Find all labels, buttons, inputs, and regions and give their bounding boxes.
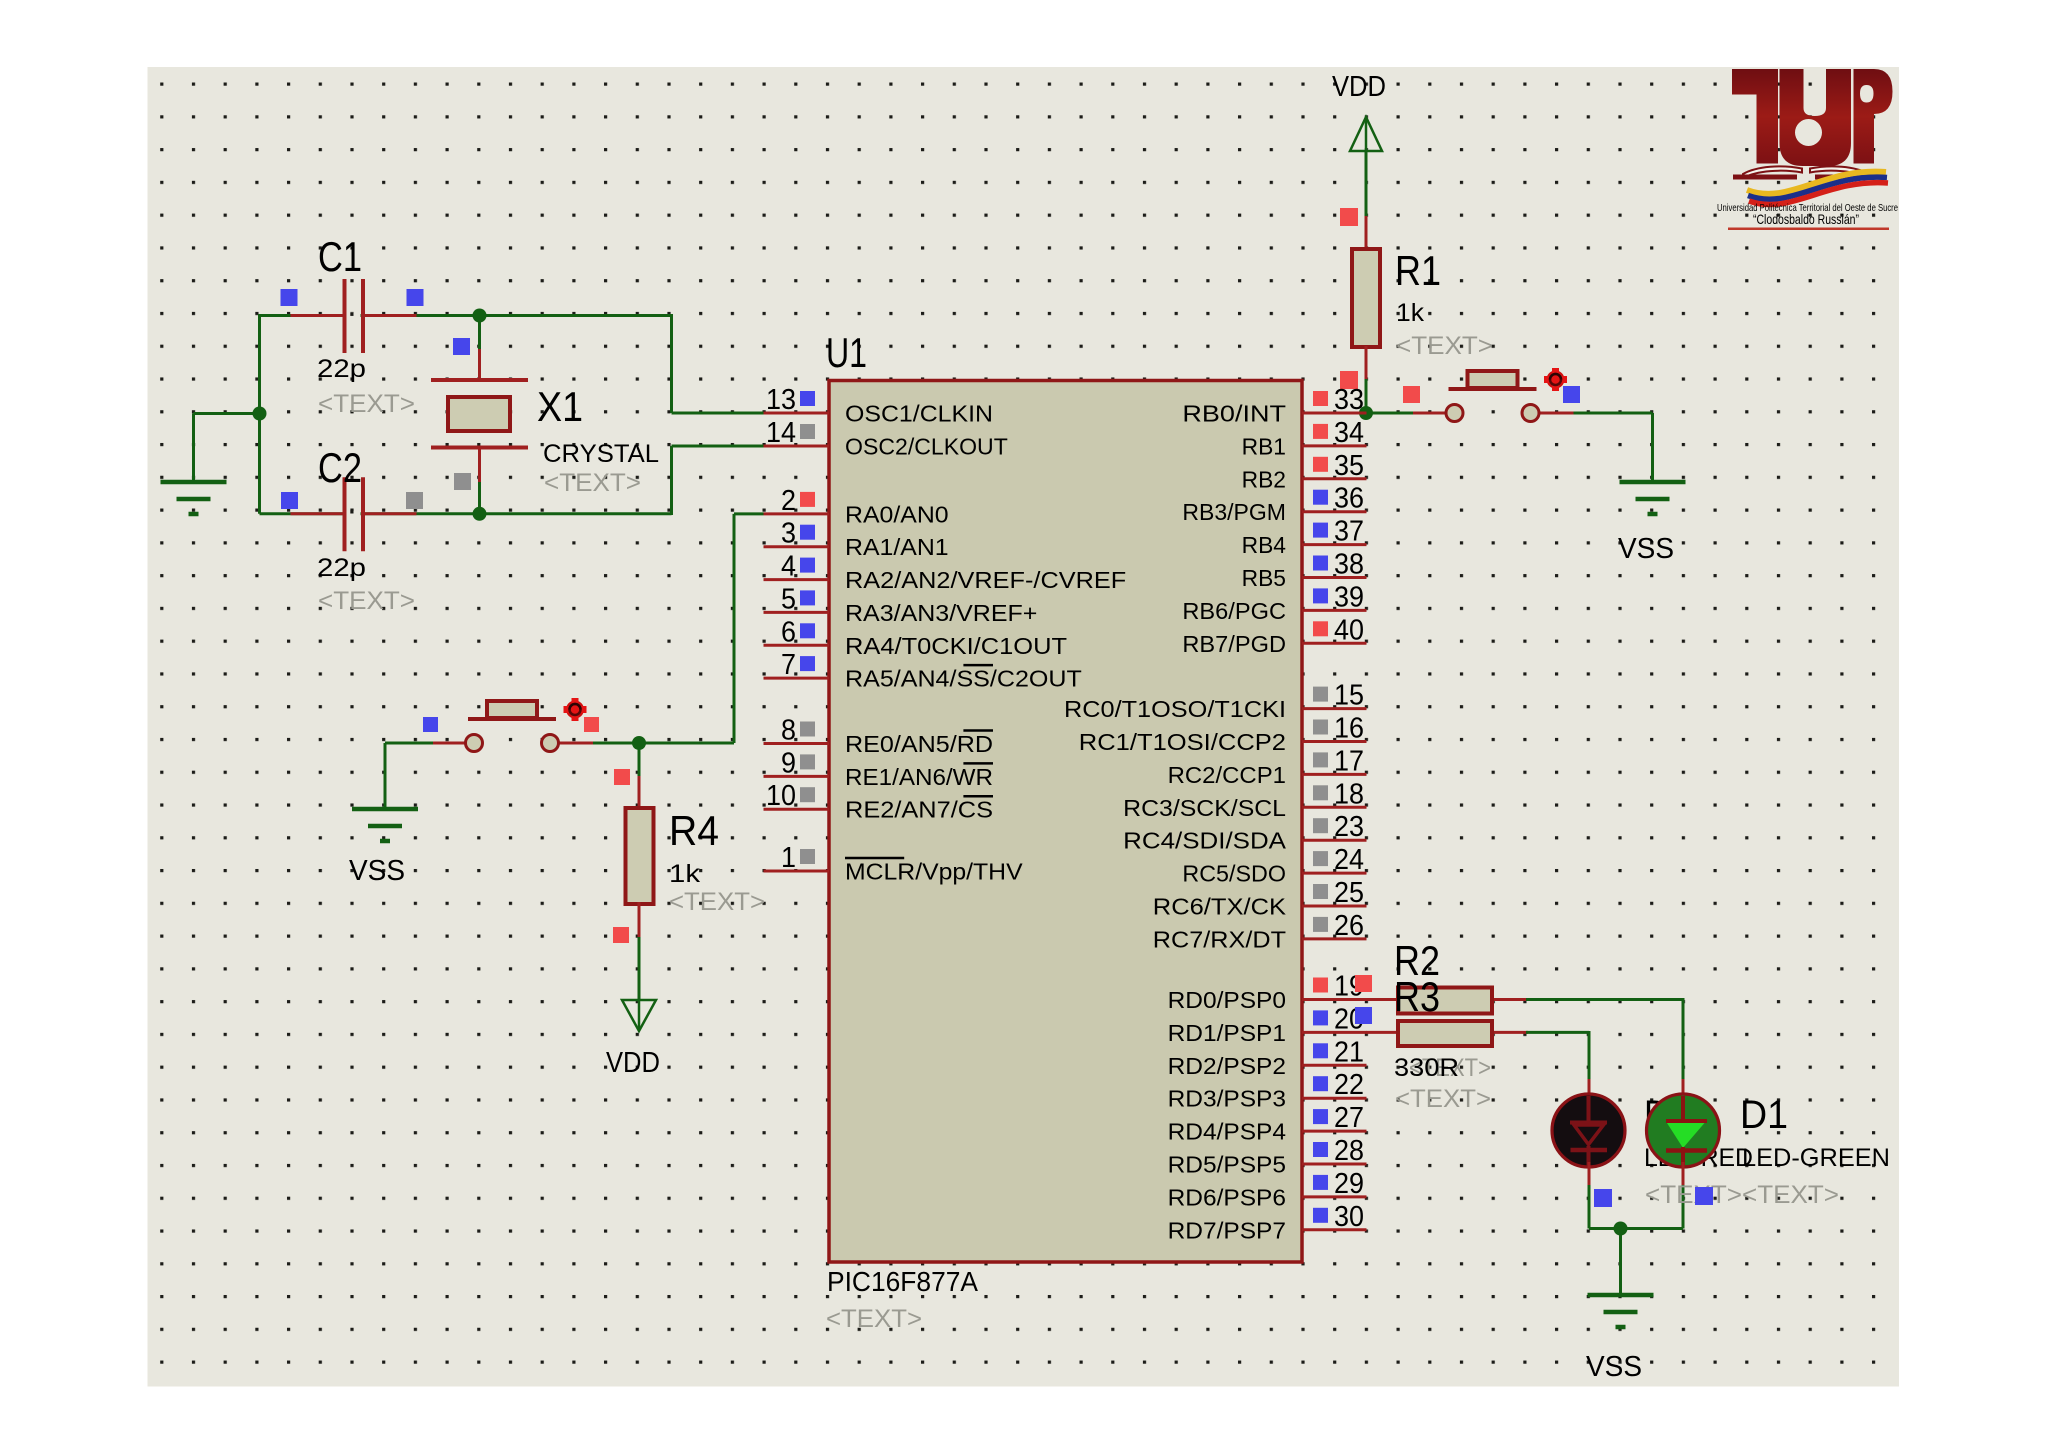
svg-text:RA0/AN0: RA0/AN0 — [845, 501, 949, 527]
junction node E (RB0 / R1 / button) — [1359, 406, 1373, 420]
svg-text:22: 22 — [1334, 1069, 1364, 1101]
U1 pin 28 (RD5/PSP5) — [1168, 1135, 1367, 1178]
logic state squares near left button — [423, 717, 438, 732]
svg-text:“Clodosbaldo Russián”: “Clodosbaldo Russián” — [1753, 211, 1859, 227]
U1 pin 15 (RC0/T1OSO/T1CKI) — [1064, 680, 1367, 723]
svg-text:R4: R4 — [669, 807, 719, 854]
svg-text:25: 25 — [1334, 877, 1364, 909]
junction node A (C1 / X1 / OSC1) — [473, 309, 487, 323]
wire ground rail between LEDs — [1589, 1227, 1683, 1230]
svg-text:38: 38 — [1334, 549, 1364, 581]
U1 pin 35 (RB2) — [1242, 450, 1367, 493]
wire R1 bottom lead (green) — [1365, 379, 1368, 413]
wire ground branch vertical at C1/C2 — [192, 414, 195, 482]
svg-text:21: 21 — [1334, 1036, 1364, 1068]
wire net between C1 and C2 left vertical — [258, 314, 261, 514]
svg-text:RD4/PSP4: RD4/PSP4 — [1168, 1119, 1287, 1145]
junction node C (C2 / X1 / OSC2) — [473, 507, 487, 521]
U1 pin 3 (RA1/AN1) — [764, 518, 949, 561]
svg-text:VSS: VSS — [1618, 533, 1674, 565]
svg-text:D1: D1 — [1740, 1093, 1788, 1137]
wire net XTAL1 vertical to pin 13 — [670, 314, 673, 413]
svg-text:RA2/AN2/VREF-/CVREF: RA2/AN2/VREF-/CVREF — [845, 567, 1126, 593]
svg-text:RC2/CCP1: RC2/CCP1 — [1168, 762, 1286, 788]
wire net from left button to ground corner — [385, 742, 447, 745]
U1 pin 22 (RD3/PSP3) — [1168, 1069, 1367, 1112]
wire net RB0 to right button — [1366, 412, 1442, 415]
svg-text:8: 8 — [781, 715, 796, 747]
actuator marker of SW2 (left) — [564, 698, 587, 721]
wire net into RA0/AN0 — [734, 512, 764, 515]
U1 pin 8 (RE0/AN5/RD) — [764, 715, 994, 758]
U1 pin 21 (RD2/PSP2) — [1168, 1036, 1367, 1079]
wire red LED cathode to ground rail — [1588, 1185, 1591, 1229]
U1 pin 26 (RC7/RX/DT) — [1153, 910, 1367, 953]
wire net down to green LED — [1682, 998, 1685, 1080]
svg-text:18: 18 — [1334, 778, 1364, 810]
svg-text:35: 35 — [1334, 450, 1364, 482]
logic state squares near right button — [1403, 386, 1420, 403]
wire net junction D to RA0 corner — [639, 742, 734, 745]
svg-text:RA5/AN4/SS/C2OUT: RA5/AN4/SS/C2OUT — [845, 666, 1082, 692]
svg-text:OSC2/CLKOUT: OSC2/CLKOUT — [845, 434, 1008, 460]
svg-text:CRYSTAL: CRYSTAL — [543, 440, 659, 468]
svg-text:OSC1/CLKIN: OSC1/CLKIN — [845, 401, 993, 427]
svg-text:R3: R3 — [1394, 973, 1440, 1020]
wire net XTAL1 top horizontal — [260, 314, 672, 317]
svg-text:37: 37 — [1334, 516, 1364, 548]
university logo UP monogram — [1732, 69, 1893, 166]
wire ground stem LEDs — [1619, 1229, 1622, 1296]
resistor R2 leads — [1366, 998, 1398, 1001]
U1 pin 27 (RD4/PSP4) — [1168, 1102, 1367, 1145]
svg-text:RA1/AN1: RA1/AN1 — [845, 534, 949, 560]
svg-text:9: 9 — [781, 747, 796, 779]
junction node B (C1-C2 ground tap) — [253, 407, 267, 421]
svg-text:30: 30 — [1334, 1201, 1364, 1233]
push button SW2 (left) — [433, 701, 593, 752]
wire green LED cathode to ground rail — [1682, 1185, 1685, 1229]
svg-text:RB5: RB5 — [1242, 565, 1286, 591]
wire net left button to junction D — [558, 742, 639, 745]
svg-text:VSS: VSS — [349, 855, 405, 887]
U1 pin 38 (RB5) — [1242, 549, 1367, 592]
svg-text:26: 26 — [1334, 910, 1364, 942]
wire ground stem left button — [384, 743, 387, 808]
U1 pin 40 (RB7/PGD) — [1182, 614, 1366, 657]
svg-text:3: 3 — [781, 518, 796, 550]
wire crystal X1 top stub (green) — [478, 316, 481, 351]
actuator marker of SW1 (right) — [1544, 368, 1567, 391]
svg-text:RD5/PSP5: RD5/PSP5 — [1168, 1152, 1286, 1178]
svg-text:6: 6 — [781, 616, 796, 648]
svg-text:39: 39 — [1334, 581, 1364, 613]
U1 pin 24 (RC5/SDO) — [1182, 844, 1366, 887]
svg-text:RD0/PSP0: RD0/PSP0 — [1168, 987, 1286, 1013]
junction node F (LED cathodes) — [1614, 1222, 1628, 1236]
svg-text:RB6/PGC: RB6/PGC — [1182, 598, 1286, 624]
svg-text:RD7/PSP7: RD7/PSP7 — [1168, 1217, 1286, 1243]
svg-text:RC1/T1OSI/CCP2: RC1/T1OSI/CCP2 — [1079, 729, 1286, 755]
svg-text:C1: C1 — [318, 233, 362, 280]
svg-text:24: 24 — [1334, 844, 1364, 876]
svg-text:VDD: VDD — [606, 1047, 660, 1079]
capacitor C2 — [291, 477, 417, 551]
U1 pin 17 (RC2/CCP1) — [1168, 745, 1367, 788]
wire crystal X1 bottom stub (green) — [478, 481, 481, 514]
push button SW1 (right) — [1414, 371, 1574, 422]
wire net R2 to green LED — [1526, 998, 1683, 1001]
svg-text:<TEXT>: <TEXT> — [318, 390, 415, 418]
U1 pin 20 (RD1/PSP1) — [1168, 1003, 1367, 1046]
U1 pin 10 (RE2/AN7/CS) — [764, 780, 994, 823]
svg-text:<TEXT>: <TEXT> — [1395, 1085, 1491, 1113]
wire R4 top lead (green) — [638, 743, 641, 778]
wire net right button to ground corner — [1538, 412, 1653, 415]
U1 pin 1 (MCLR/Vpp/THV) — [764, 842, 1024, 885]
U1 pin 2 (RA0/AN0) — [764, 485, 949, 528]
logic state square crystal bottom — [454, 473, 471, 490]
svg-text:LED-GREEN: LED-GREEN — [1742, 1144, 1890, 1172]
U1 pin 30 (RD7/PSP7) — [1168, 1201, 1367, 1244]
svg-text:34: 34 — [1334, 417, 1364, 449]
svg-text:28: 28 — [1334, 1135, 1364, 1167]
resistor R2 body — [1398, 988, 1492, 1014]
U1 pin 9 (RE1/AN6/WR) — [764, 747, 994, 790]
logo caption text — [1717, 203, 1898, 230]
resistor R3 body — [1398, 1021, 1492, 1046]
ground symbol G4 LEDs — [1588, 1229, 1654, 1328]
wire ground branch horizontal at C1/C2 — [194, 412, 262, 415]
ground symbol G2 left button — [352, 743, 418, 841]
svg-text:29: 29 — [1334, 1168, 1364, 1200]
svg-text:23: 23 — [1334, 811, 1364, 843]
svg-text:1: 1 — [781, 842, 796, 874]
wire ground stem right button — [1651, 413, 1654, 481]
wire net XTAL2 vertical from pin 14 — [670, 446, 673, 515]
svg-text:X1: X1 — [537, 383, 583, 430]
svg-text:RC5/SDO: RC5/SDO — [1182, 861, 1286, 887]
U1 pin 25 (RC6/TX/CK) — [1153, 877, 1367, 920]
wire net XTAL2 bottom horizontal — [260, 512, 672, 515]
resistor R3 leads — [1366, 1031, 1398, 1034]
U1 pin 7 (RA5/AN4/SS/C2OUT) — [764, 649, 1082, 692]
svg-text:<TEXT><TEXT>: <TEXT><TEXT> — [1645, 1181, 1839, 1209]
wire R1 top lead (green) — [1365, 151, 1368, 217]
junction node D (button / R4 / RA0) — [632, 736, 646, 750]
logic state squares near C1 — [281, 289, 298, 306]
U1 pin 33 (RB0/INT) — [1182, 384, 1366, 427]
svg-text:1k: 1k — [669, 860, 701, 888]
svg-text:RE2/AN7/CS: RE2/AN7/CS — [845, 797, 993, 823]
svg-text:<TEXT>: <TEXT> — [318, 587, 415, 615]
svg-text:4: 4 — [781, 551, 796, 583]
svg-text:22p: 22p — [317, 554, 366, 582]
svg-text:33: 33 — [1334, 384, 1364, 416]
svg-text:RB2: RB2 — [1242, 466, 1286, 492]
logo open book — [1733, 166, 1878, 179]
logo flag ribbon — [1747, 172, 1888, 205]
ground symbol G1 near C1/C2 — [161, 414, 227, 515]
svg-text:17: 17 — [1334, 745, 1364, 777]
svg-text:RC7/RX/DT: RC7/RX/DT — [1153, 926, 1286, 952]
capacitor C1 — [291, 279, 417, 353]
extra state square right of pin 19 — [1355, 975, 1372, 992]
svg-text:27: 27 — [1334, 1102, 1364, 1134]
svg-text:5: 5 — [781, 583, 796, 615]
svg-text:RD6/PSP6: RD6/PSP6 — [1168, 1184, 1286, 1210]
logic state squares near C2 — [281, 492, 298, 509]
U1 pin 5 (RA3/AN3/VREF+) — [764, 583, 1038, 626]
svg-text:C2: C2 — [318, 444, 362, 491]
svg-text:RD2/PSP2: RD2/PSP2 — [1168, 1053, 1286, 1079]
logic state squares near R1 — [1340, 208, 1358, 226]
svg-text:40: 40 — [1334, 614, 1364, 646]
svg-text:<TEXT>: <TEXT> — [826, 1305, 922, 1333]
wire net vertical up to RA0 — [733, 514, 736, 743]
svg-text:RB1: RB1 — [1242, 433, 1286, 459]
svg-text:R1: R1 — [1395, 247, 1441, 294]
LED D2 (red, off) — [1552, 1094, 1625, 1167]
U1 pin 14 (OSC2/CLKOUT) — [764, 417, 1008, 460]
svg-text:<TEXT>: <TEXT> — [544, 469, 641, 497]
svg-text:RA3/AN3/VREF+: RA3/AN3/VREF+ — [845, 600, 1037, 626]
svg-text:RC6/TX/CK: RC6/TX/CK — [1153, 894, 1287, 920]
wire net XTAL2 into OSC2/CLKOUT — [672, 445, 764, 448]
svg-text:RD1/PSP1: RD1/PSP1 — [1168, 1020, 1286, 1046]
power symbol VDD (below R4) — [622, 1000, 656, 1031]
U1 pin 18 (RC3/SCK/SCL) — [1123, 778, 1366, 821]
U1 pin 34 (RB1) — [1242, 417, 1367, 460]
power symbol VDD (above R1) — [1350, 117, 1382, 151]
svg-text:15: 15 — [1334, 680, 1364, 712]
svg-text:RE0/AN5/RD: RE0/AN5/RD — [845, 731, 993, 757]
svg-text:36: 36 — [1334, 483, 1364, 515]
U1 pin 37 (RB4) — [1242, 516, 1367, 559]
wire net down to red LED — [1588, 1031, 1591, 1080]
svg-text:VDD: VDD — [1332, 71, 1386, 103]
svg-text:PIC16F877A: PIC16F877A — [827, 1266, 978, 1297]
svg-text:RA4/T0CKI/C1OUT: RA4/T0CKI/C1OUT — [845, 633, 1067, 659]
svg-text:VSS: VSS — [1586, 1351, 1642, 1383]
svg-text:RB0/INT: RB0/INT — [1182, 401, 1286, 427]
svg-text:<TEXT>: <TEXT> — [669, 888, 765, 916]
IC U1 body (PIC16F877A) — [829, 381, 1302, 1263]
svg-text:MCLR/Vpp/THV: MCLR/Vpp/THV — [845, 859, 1023, 885]
crystal X1 — [431, 380, 528, 448]
LED D1 (green, on) — [1647, 1094, 1720, 1167]
svg-text:10: 10 — [766, 780, 796, 812]
extra state square right of pin 33 — [1403, 386, 1420, 403]
U1 pin 23 (RC4/SDI/SDA) — [1123, 811, 1366, 854]
extra state square right of pin 20 — [1355, 1007, 1372, 1024]
logic state squares near LED cathodes — [1594, 1189, 1612, 1207]
resistor R1 body — [1352, 249, 1380, 347]
U1 pin 4 (RA2/AN2/VREF-/CVREF) — [764, 551, 1127, 594]
svg-text:U1: U1 — [826, 329, 867, 376]
svg-text:RC0/T1OSO/T1CKI: RC0/T1OSO/T1CKI — [1064, 696, 1286, 722]
U1 pin 29 (RD6/PSP6) — [1168, 1168, 1367, 1211]
svg-text:13: 13 — [766, 384, 796, 416]
logic state square crystal top — [453, 338, 470, 355]
svg-text:2: 2 — [781, 485, 796, 517]
U1 pin 6 (RA4/T0CKI/C1OUT) — [764, 616, 1068, 659]
wire R4 bottom lead (green) — [638, 937, 641, 1000]
svg-text:RB4: RB4 — [1242, 532, 1287, 558]
svg-text:14: 14 — [766, 417, 796, 449]
svg-text:22p: 22p — [317, 355, 366, 383]
svg-text:RE1/AN6/WR: RE1/AN6/WR — [845, 764, 993, 790]
svg-text:RC4/SDI/SDA: RC4/SDI/SDA — [1123, 828, 1287, 854]
svg-text:RB3/PGM: RB3/PGM — [1182, 499, 1286, 525]
svg-text:7: 7 — [781, 649, 796, 681]
svg-text:RB7/PGD: RB7/PGD — [1182, 631, 1286, 657]
U1 pin 19 (RD0/PSP0) — [1168, 971, 1367, 1014]
svg-text:<TEXT>: <TEXT> — [1396, 332, 1493, 360]
svg-text:16: 16 — [1334, 713, 1364, 745]
U1 pin 39 (RB6/PGC) — [1182, 581, 1366, 624]
svg-text:330R: 330R — [1394, 1054, 1459, 1082]
svg-text:RD3/PSP3: RD3/PSP3 — [1168, 1086, 1286, 1112]
ground symbol G3 right button — [1620, 413, 1686, 514]
logic state squares on R4 leads — [614, 769, 630, 785]
resistor R4 body — [626, 808, 654, 904]
wire net XTAL1 into OSC1/CLKIN — [672, 412, 764, 415]
U1 pin 13 (OSC1/CLKIN) — [764, 384, 994, 427]
svg-text:RC3/SCK/SCL: RC3/SCK/SCL — [1123, 795, 1286, 821]
U1 pin 16 (RC1/T1OSI/CCP2) — [1079, 713, 1367, 756]
U1 pin 36 (RB3/PGM) — [1182, 483, 1366, 526]
wire net R3 to red LED — [1526, 1031, 1589, 1034]
svg-text:1k: 1k — [1396, 299, 1425, 327]
